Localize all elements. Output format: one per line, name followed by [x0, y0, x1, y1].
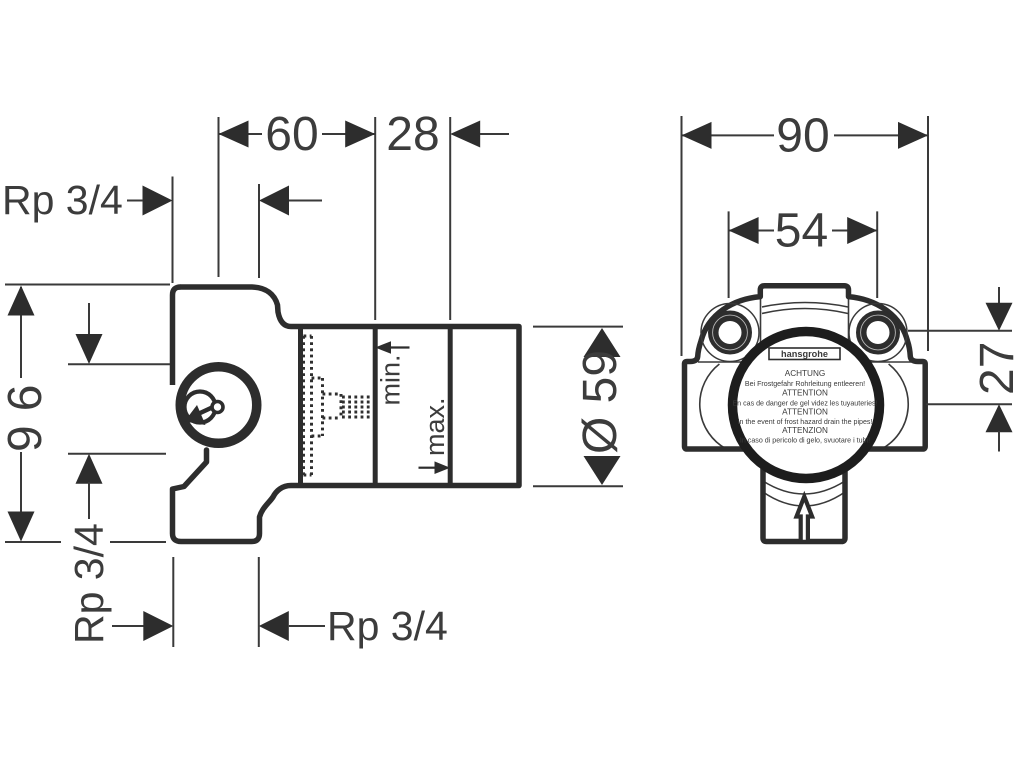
- body outline main: [173, 287, 520, 542]
- dotted cartridge shaft outline: [304, 336, 312, 475]
- svg-text:ATTENTION: ATTENTION: [782, 408, 828, 417]
- port up-arrow: [76, 454, 103, 484]
- svg-text:In caso di pericolo di gelo, s: In caso di pericolo di gelo, svuotare i …: [740, 437, 870, 445]
- ledge thin line left: [698, 361, 760, 363]
- dia59 bottom extension line: [533, 485, 623, 487]
- cap inner wall right: [848, 297, 850, 342]
- cap inner wall left: [760, 297, 762, 342]
- right petal arc: [882, 364, 908, 449]
- port center extension line lower: [68, 453, 166, 455]
- dim 96 line: [20, 287, 22, 378]
- top dim extension line x218: [218, 117, 220, 277]
- cap inner arc 1: [762, 303, 848, 308]
- Rp top extension line x259: [258, 184, 260, 278]
- svg-text:27: 27: [971, 342, 1024, 395]
- cap inner arc 2: [762, 309, 848, 314]
- svg-text:Ø 59: Ø 59: [574, 350, 627, 454]
- svg-text:min.: min.: [376, 354, 406, 405]
- label circle: [733, 332, 880, 479]
- max leader arrow: [419, 461, 451, 474]
- bottom extension line x259: [258, 557, 260, 647]
- Rp top left-arrow: [259, 186, 289, 216]
- dim 54 extension lines: [728, 211, 730, 298]
- min leader arrow: [375, 341, 409, 354]
- dia59 arrows: [584, 328, 621, 357]
- ledge thin line right: [848, 361, 911, 363]
- Rp bottom right-arrow: [112, 625, 145, 627]
- divider max: [448, 329, 453, 483]
- svg-text:ACHTUNG: ACHTUNG: [785, 369, 825, 378]
- warning text block: [732, 369, 877, 445]
- port ring: [180, 367, 257, 444]
- handle wedge: [185, 405, 206, 425]
- dim 90 line: [682, 134, 929, 136]
- dim 27 arrow top: [986, 303, 1013, 331]
- screw boss left annulus: [713, 316, 747, 350]
- dim 27 bottom extension line: [926, 403, 1012, 405]
- handle lever bar: [198, 408, 212, 415]
- svg-text:28: 28: [386, 108, 439, 161]
- dim 28 outside arrow: [450, 121, 480, 148]
- dim 60 line: [219, 133, 376, 135]
- dim 90 extension lines: [681, 116, 683, 356]
- taper front edge: [298, 329, 303, 483]
- svg-text:Rp 3/4: Rp 3/4: [327, 603, 448, 649]
- flow arrow outline: [797, 497, 813, 542]
- screw boss right white ring: [861, 315, 896, 350]
- svg-text:Bei Frostgefahr Rohrleitung en: Bei Frostgefahr Rohrleitung entleeren!: [745, 380, 865, 388]
- Rp top right-arrow: [143, 186, 173, 216]
- svg-text:60: 60: [265, 108, 318, 161]
- spout inner arc shallow: [763, 481, 845, 494]
- dim 27 top extension line: [908, 330, 1012, 332]
- svg-text:In the event of frost hazard d: In the event of frost hazard drain the p…: [738, 418, 873, 426]
- 96 bottom extension line: [5, 541, 61, 543]
- top dim extension line x375: [374, 117, 376, 320]
- svg-text:54: 54: [775, 205, 828, 258]
- hansgrohe logo box: [769, 348, 840, 360]
- handle pin: [212, 402, 223, 413]
- body outline left edge upper: [173, 287, 207, 450]
- port center extension line upper: [68, 363, 170, 365]
- dia59 top extension line: [533, 326, 623, 328]
- Rp top extension line x172: [172, 177, 174, 284]
- svg-text:90: 90: [776, 110, 829, 163]
- Rp bottom left-arrow: [259, 611, 289, 641]
- dim 27 arrow bottom: [986, 404, 1013, 432]
- dim 27 line upper: [998, 287, 1000, 303]
- svg-text:En cas de danger de gel videz: En cas de danger de gel videz les tuyaut…: [732, 399, 877, 407]
- screw boss right annulus: [861, 316, 895, 350]
- divider min: [373, 329, 378, 483]
- 96 top extension line: [5, 284, 170, 286]
- svg-text:hansgrohe: hansgrohe: [781, 349, 828, 359]
- bottom extension line x173: [172, 557, 174, 647]
- body outline right view: [685, 286, 926, 542]
- dotted thread rows: [342, 397, 374, 417]
- screw boss left seat circle: [701, 304, 759, 362]
- svg-text:max.: max.: [420, 397, 450, 456]
- dim 54 arrows: [729, 217, 759, 244]
- screw boss left white ring: [713, 315, 748, 350]
- spout inner arc deep: [763, 492, 845, 506]
- svg-text:ATTENZION: ATTENZION: [782, 426, 828, 435]
- dim 60 arrows: [219, 121, 249, 148]
- screw boss right seat circle: [849, 304, 907, 362]
- dotted cartridge head outline: [323, 394, 342, 418]
- svg-text:Rp 3/4: Rp 3/4: [66, 523, 112, 644]
- svg-text:ATTENTION: ATTENTION: [782, 389, 828, 398]
- svg-text:96: 96: [0, 371, 52, 452]
- dim 96 arrows: [8, 286, 35, 316]
- handle circle: [185, 392, 216, 423]
- svg-text:Rp 3/4: Rp 3/4: [2, 177, 123, 223]
- top dim extension line x452: [449, 117, 451, 320]
- port down-arrow: [88, 303, 90, 336]
- left petal arc: [700, 364, 726, 449]
- dim 90 arrows: [682, 122, 712, 149]
- inner thin arcs group: [698, 297, 911, 506]
- dim 27 line lower: [998, 431, 1000, 452]
- dotted cartridge flange outline: [312, 378, 323, 436]
- dim 54 line: [729, 230, 878, 232]
